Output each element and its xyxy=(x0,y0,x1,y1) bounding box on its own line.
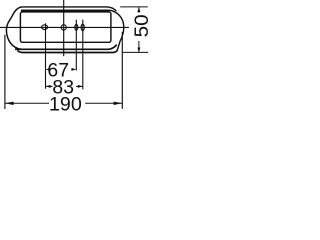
seam and plate top merged band xyxy=(21,10,110,13)
vertical center line xyxy=(63,0,65,56)
dimension 190 line right xyxy=(85,102,122,104)
hole circle left xyxy=(42,25,48,30)
dimension 83 right arrow xyxy=(78,85,83,88)
dimension 83 left arrow xyxy=(46,85,51,88)
knockout slot B xyxy=(81,24,84,31)
extension line 190 right xyxy=(121,32,123,109)
svg-text:190: 190 xyxy=(49,94,82,116)
hole circle center xyxy=(61,25,66,30)
fixture outer outline top edge xyxy=(22,7,117,11)
svg-text:50: 50 xyxy=(131,14,153,37)
dimension 190 left arrow xyxy=(5,102,14,105)
extension line 190 left xyxy=(4,35,6,109)
fixture seam line top xyxy=(21,9,110,11)
dimension 67 left arrow xyxy=(46,68,51,71)
dimension 83 line right xyxy=(76,85,83,87)
dimension 50 bottom arrow xyxy=(137,48,140,53)
extension line 50 top xyxy=(120,6,148,8)
extension line from slot B xyxy=(82,20,84,90)
fixture seam line bottom xyxy=(15,45,117,50)
knockout slot A xyxy=(75,24,78,30)
mounting plate rectangle xyxy=(20,12,111,42)
extension line from slot A xyxy=(75,20,77,71)
fixture right cap xyxy=(110,10,124,50)
dimension 190 right arrow xyxy=(114,102,123,105)
dimension 190 line left xyxy=(5,102,49,104)
dimension 50 top arrow xyxy=(137,7,140,12)
dimension 83 line left xyxy=(46,85,53,87)
fixture outer outline left cap xyxy=(6,7,21,49)
dimension 50 line bottom xyxy=(138,41,140,52)
dimension 50 line top xyxy=(138,7,140,13)
fixture outer outline bottom edge xyxy=(18,50,118,52)
extension line from left hole xyxy=(45,23,47,88)
dimension 67 right arrow xyxy=(71,68,76,71)
extension line 50 bottom xyxy=(122,51,148,53)
horizontal center line xyxy=(0,26,129,28)
